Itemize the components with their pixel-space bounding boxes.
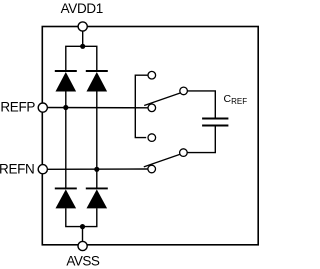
terminal AVDD1: [78, 22, 87, 31]
terminal REFP: [38, 103, 47, 112]
svg-text:REFP: REFP: [0, 100, 35, 115]
contact circle bottom throw: [148, 134, 156, 142]
diode D2 REFN to AVDD1: [86, 71, 108, 92]
terminal AVSS: [78, 241, 87, 250]
wire top rail: [66, 46, 97, 71]
contact circle S1 right: [180, 87, 188, 95]
node AVSS junction: [80, 224, 85, 229]
svg-text:REFN: REFN: [0, 161, 34, 176]
wire right column (REFN): [96, 91, 98, 188]
contact circle top throw: [148, 71, 156, 79]
wire S2 to capacitor bottom: [187, 126, 215, 152]
switch S2 arm (REFN to CREF): [144, 154, 180, 167]
svg-text:AVSS: AVSS: [66, 254, 100, 269]
wire left column (REFP): [65, 91, 67, 188]
diode D1 REFP to AVDD1: [55, 71, 77, 92]
diode D4 AVSS to REFN: [86, 188, 108, 208]
node REFN junction: [94, 167, 99, 172]
svg-text:CREF: CREF: [224, 93, 248, 106]
contact circle REFP pole: [148, 104, 156, 112]
switch S1 arm (REFP to CREF): [144, 93, 180, 106]
wire REFP line: [43, 107, 149, 109]
chip boundary box: [42, 27, 258, 245]
svg-text:AVDD1: AVDD1: [61, 1, 103, 16]
wire REFN line: [43, 168, 149, 170]
capacitor CREF: [202, 119, 228, 126]
wire mux bracket: [135, 75, 148, 137]
diode D3 AVSS to REFP: [55, 188, 77, 208]
terminal REFN: [38, 165, 47, 174]
wire AVSS stub: [82, 227, 84, 245]
contact circle REFN pole: [148, 165, 156, 173]
node AVDD1 junction: [80, 44, 85, 49]
node REFP junction: [63, 105, 68, 110]
wire AVDD1 stub: [82, 27, 84, 47]
contact circle S2 right: [180, 149, 188, 157]
wire S1 to capacitor top: [187, 91, 215, 118]
wire AVSS join: [66, 208, 97, 226]
